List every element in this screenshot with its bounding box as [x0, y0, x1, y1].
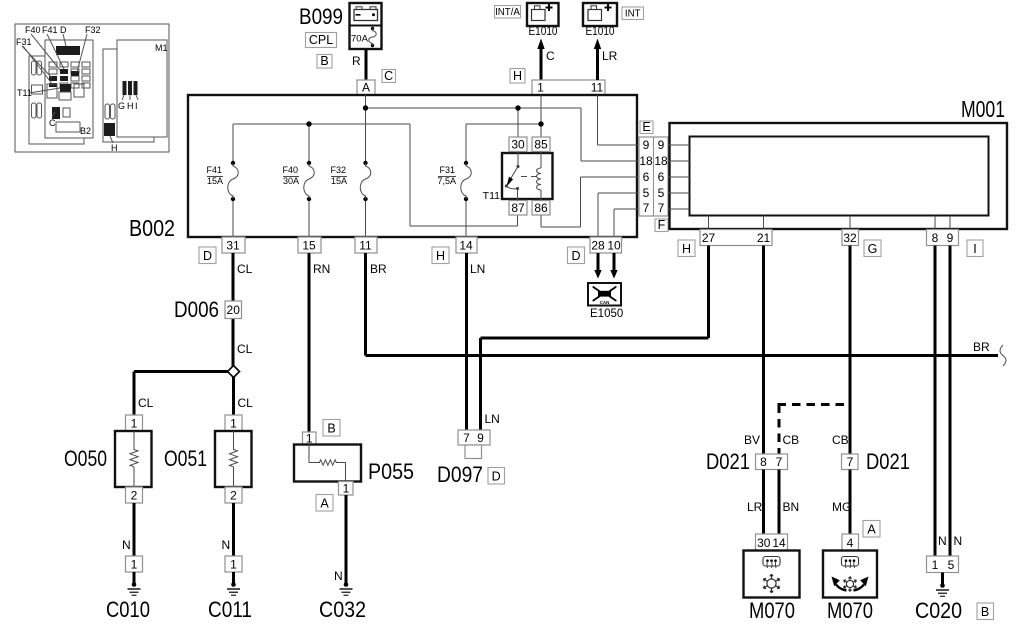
pin 15	[298, 237, 321, 253]
pins 28 10	[590, 237, 622, 253]
wire: relay 86 to pin column row 6	[540, 215, 542, 227]
svg-text:CL: CL	[237, 342, 253, 356]
fuse-box location inset	[15, 24, 169, 153]
junction unit B002	[129, 95, 668, 264]
svg-text:87: 87	[511, 201, 525, 215]
relay pin 30	[509, 137, 527, 152]
svg-text:LR: LR	[747, 500, 763, 514]
svg-text:F31: F31	[16, 37, 32, 47]
relay T11 (dark)	[60, 84, 71, 92]
svg-text:LR: LR	[602, 49, 618, 63]
svg-text:D: D	[60, 25, 67, 35]
svg-text:D021: D021	[706, 449, 750, 474]
svg-text:7: 7	[658, 201, 665, 215]
wire arrow from pin 28	[597, 253, 600, 271]
ground C010	[133, 572, 136, 584]
relay switch contact	[517, 152, 519, 167]
wire CB dashed	[778, 405, 851, 455]
svg-text:B099: B099	[299, 4, 343, 29]
svg-text:C: C	[49, 118, 56, 128]
svg-text:CAN: CAN	[600, 300, 610, 305]
wire LR	[762, 470, 765, 535]
wire BN	[778, 470, 781, 535]
svg-text:7: 7	[463, 431, 470, 445]
label I	[967, 240, 983, 257]
wire arrow from pin 10	[613, 253, 616, 271]
grille icon	[842, 557, 859, 567]
svg-text:C: C	[384, 69, 393, 83]
svg-text:1: 1	[343, 482, 350, 496]
svg-text:R: R	[352, 54, 361, 68]
svg-text:INT/A: INT/A	[495, 7, 520, 18]
label INT/A	[495, 6, 521, 19]
svg-text:CL: CL	[138, 396, 154, 410]
svg-text:F41: F41	[206, 165, 222, 175]
wire BR bus from pin 11	[366, 253, 1007, 366]
wire BV from pin 21	[744, 246, 764, 455]
svg-text:C011: C011	[208, 597, 252, 622]
snowflake icon	[763, 574, 779, 593]
svg-text:2: 2	[230, 489, 237, 503]
connector C020	[915, 556, 994, 623]
wire: INT/A feed pin 1 to F31 and relay 85	[540, 95, 542, 153]
svg-text:28: 28	[591, 239, 605, 253]
svg-text:N: N	[122, 538, 131, 552]
grille icon	[763, 557, 780, 567]
inset frame	[15, 24, 169, 152]
svg-text:7: 7	[776, 455, 783, 469]
svg-text:1: 1	[131, 417, 138, 431]
svg-text:10: 10	[607, 239, 621, 253]
node: junction F40	[306, 121, 311, 126]
svg-text:CB: CB	[783, 433, 800, 447]
svg-text:5: 5	[643, 186, 650, 200]
resistor O050	[64, 415, 152, 622]
label F	[655, 219, 668, 232]
relay pin 85	[532, 137, 550, 152]
svg-text:M1: M1	[155, 43, 168, 53]
svg-text:M070: M070	[827, 598, 873, 623]
svg-text:8: 8	[760, 455, 767, 469]
node: junction A/F32	[363, 105, 368, 110]
svg-text:11: 11	[359, 239, 372, 253]
wire R	[365, 49, 368, 80]
pins 27 21	[700, 230, 772, 246]
connector D021 right	[832, 449, 910, 537]
svg-text:N: N	[954, 534, 963, 548]
svg-text:C020: C020	[915, 598, 962, 623]
svg-text:D: D	[492, 470, 501, 484]
wire N	[232, 503, 235, 556]
label B	[317, 55, 332, 69]
svg-text:1: 1	[932, 558, 939, 572]
label H	[510, 69, 525, 84]
svg-text:M001: M001	[961, 96, 1005, 122]
wire MG	[849, 470, 852, 535]
pin column E	[640, 121, 653, 134]
M1 front panel	[117, 40, 167, 137]
svg-text:9: 9	[643, 138, 650, 152]
svg-text:30: 30	[511, 138, 525, 152]
wire N	[345, 495, 348, 584]
svg-text:9: 9	[658, 138, 665, 152]
svg-text:20: 20	[227, 303, 241, 317]
wire LN from pin 14	[467, 253, 486, 430]
svg-text:9: 9	[947, 231, 954, 245]
wire CL from pin 31	[134, 253, 253, 415]
svg-text:A: A	[867, 523, 876, 537]
svg-text:27: 27	[702, 231, 716, 245]
pin 31	[222, 237, 245, 253]
svg-text:H: H	[436, 249, 445, 263]
svg-text:14: 14	[772, 536, 786, 550]
connector D (dark)	[56, 46, 80, 55]
svg-text:B: B	[327, 422, 335, 436]
fuse 70A symbol	[371, 27, 374, 30]
svg-text:5: 5	[658, 186, 665, 200]
svg-text:11: 11	[591, 81, 604, 95]
node E1050 CAN	[588, 283, 621, 306]
pin 11	[355, 237, 377, 253]
svg-text:RN: RN	[313, 262, 330, 276]
label CPL	[306, 33, 337, 48]
svg-text:CL: CL	[237, 262, 253, 276]
svg-text:MG: MG	[832, 500, 851, 514]
motor M070 recirculation	[823, 534, 877, 623]
svg-text:18: 18	[639, 154, 653, 168]
svg-text:85: 85	[534, 138, 548, 152]
svg-text:H: H	[682, 242, 691, 256]
relay T11	[502, 153, 553, 199]
battery box with 70A fuse	[350, 3, 382, 49]
svg-text:1: 1	[131, 558, 138, 572]
fuse F31 7,5A	[464, 161, 468, 165]
label C	[382, 70, 396, 83]
node E1010	[527, 3, 559, 26]
svg-text:N: N	[334, 569, 343, 583]
label G	[864, 240, 881, 257]
fuse F40 (dark)	[60, 76, 68, 81]
CAN node E1050	[588, 253, 623, 320]
fuse F32 (dark)	[71, 71, 79, 76]
ground C011	[232, 572, 235, 584]
node E1010	[583, 3, 617, 26]
wire: battery bus from pin A	[365, 95, 367, 163]
svg-text:F32: F32	[330, 165, 346, 175]
svg-text:D021: D021	[866, 449, 910, 474]
svg-text:N: N	[222, 538, 231, 552]
fuse F41 15A	[231, 161, 235, 165]
svg-text:E1010: E1010	[529, 26, 558, 38]
svg-text:15: 15	[302, 239, 316, 253]
fuse F31 (dark)	[49, 76, 57, 81]
svg-text:LN: LN	[470, 262, 485, 276]
svg-text:F40: F40	[25, 25, 41, 35]
svg-text:O050: O050	[64, 446, 107, 471]
svg-text:C010: C010	[106, 597, 150, 622]
connector C (dark)	[52, 107, 60, 119]
callout lines	[22, 34, 87, 85]
svg-text:H: H	[127, 101, 134, 111]
ground C032	[344, 582, 349, 587]
svg-text:C: C	[546, 49, 555, 63]
svg-text:1: 1	[230, 417, 237, 431]
svg-text:15A: 15A	[331, 176, 347, 186]
ground C020	[941, 573, 944, 586]
label H	[678, 240, 695, 257]
svg-text:LN: LN	[485, 412, 500, 426]
svg-text:15A: 15A	[207, 176, 223, 186]
svg-text:E1010: E1010	[586, 26, 615, 38]
svg-text:CB: CB	[832, 433, 849, 447]
svg-text:21: 21	[757, 231, 771, 245]
wire: pin 11 INT feed to row 9	[597, 95, 599, 145]
svg-text:2: 2	[131, 489, 138, 503]
svg-text:B002: B002	[129, 215, 175, 241]
label INT	[622, 7, 644, 20]
svg-text:6: 6	[643, 170, 650, 184]
wire C with arrow	[540, 48, 543, 80]
svg-text:I: I	[973, 242, 976, 256]
svg-text:A: A	[320, 497, 329, 511]
battery feed E1010 INT	[583, 3, 644, 95]
svg-text:D: D	[203, 249, 212, 263]
svg-text:86: 86	[534, 201, 548, 215]
wire: pin 28 to row 5	[597, 193, 599, 237]
svg-text:T11: T11	[483, 190, 500, 202]
svg-text:32: 32	[843, 231, 857, 245]
svg-text:D006: D006	[174, 297, 219, 322]
svg-text:14: 14	[459, 239, 473, 253]
connector H (dark square)	[104, 123, 115, 136]
svg-text:8: 8	[932, 231, 939, 245]
wire N	[133, 503, 136, 556]
pin 14	[456, 237, 477, 253]
svg-text:B: B	[981, 605, 989, 619]
svg-text:D: D	[571, 249, 580, 263]
svg-text:BR: BR	[973, 340, 990, 354]
svg-text:D097: D097	[437, 462, 483, 487]
svg-text:F32: F32	[85, 25, 101, 35]
svg-text:1: 1	[537, 81, 544, 95]
relay pin 87	[509, 201, 527, 216]
svg-text:B2: B2	[80, 126, 91, 136]
wire LR with arrow	[596, 48, 599, 80]
wire RN from pin 15	[309, 253, 330, 432]
fuse grid	[49, 62, 90, 88]
svg-text:I: I	[135, 101, 138, 111]
relay coil	[540, 152, 542, 169]
svg-text:G: G	[868, 242, 878, 256]
svg-text:H: H	[111, 143, 118, 153]
svg-text:M070: M070	[749, 598, 795, 623]
svg-text:4: 4	[847, 536, 854, 550]
box B002	[188, 95, 637, 237]
svg-text:BN: BN	[783, 500, 800, 514]
wire stubs rows 9 18 6 5 7	[668, 144, 690, 146]
svg-text:30A: 30A	[283, 176, 299, 186]
battery icon	[354, 10, 378, 21]
fusebox B2 front panel	[45, 40, 93, 138]
connector G (dark bar)	[123, 81, 127, 95]
svg-text:30: 30	[757, 536, 771, 550]
svg-text:O051: O051	[164, 446, 207, 471]
svg-text:INT: INT	[625, 9, 641, 20]
svg-text:F40: F40	[282, 165, 298, 175]
wire: pin 10 to row 7	[613, 209, 615, 237]
pin 32	[842, 230, 859, 246]
svg-text:A: A	[362, 81, 370, 95]
resistor O051	[164, 415, 252, 622]
fuse F41 (dark)	[60, 69, 68, 74]
svg-text:70A: 70A	[351, 34, 369, 45]
svg-text:P055: P055	[368, 459, 414, 484]
svg-text:N: N	[938, 534, 947, 548]
motor M070 compressor	[744, 534, 800, 623]
M1 back plate	[103, 49, 154, 142]
svg-text:CL: CL	[238, 396, 254, 410]
junction diamond	[134, 370, 228, 373]
inner box	[690, 137, 989, 216]
label H	[432, 247, 449, 264]
svg-text:E1050: E1050	[590, 308, 623, 320]
svg-text:H: H	[513, 69, 522, 83]
relay dashed link	[521, 176, 540, 178]
svg-text:7: 7	[847, 455, 854, 469]
wire: fuse outputs to bottom pins	[232, 199, 234, 237]
battery feed E1010 INT/A	[495, 3, 606, 95]
svg-text:B: B	[320, 54, 328, 68]
fuse F32 15A	[363, 161, 367, 165]
svg-text:F31: F31	[439, 165, 455, 175]
svg-text:BV: BV	[744, 433, 760, 447]
svg-text:1: 1	[230, 558, 237, 572]
pin 1 (shared box with pin 11)	[532, 80, 605, 95]
pin A	[357, 80, 375, 95]
svg-text:E: E	[642, 120, 650, 134]
svg-text:31: 31	[226, 239, 240, 253]
svg-text:6: 6	[658, 170, 665, 184]
fusebox B2 back plate	[29, 56, 84, 144]
svg-text:7,5A: 7,5A	[437, 176, 456, 186]
snowflake with arrows icon	[844, 577, 857, 592]
node: junction 85 feed	[538, 121, 543, 126]
node: junction relay 30	[515, 105, 520, 110]
connector H (dark bar)	[128, 81, 132, 95]
battery B099	[299, 3, 396, 95]
relay pin 86	[532, 201, 550, 216]
pins 8 9	[927, 230, 959, 246]
wires N N from pins 8 9	[935, 246, 962, 557]
svg-text:F41: F41	[42, 25, 58, 35]
svg-text:G: G	[118, 101, 125, 111]
svg-text:5: 5	[948, 558, 955, 572]
fuse F40 30A	[307, 161, 311, 165]
svg-text:CPL: CPL	[309, 33, 333, 47]
svg-text:C032: C032	[319, 597, 366, 622]
control unit M001	[668, 96, 1007, 257]
svg-text:18: 18	[654, 154, 668, 168]
box M001	[670, 123, 1008, 229]
label D	[568, 247, 585, 264]
connector I (dark bar)	[134, 81, 138, 95]
wire stubs bottom pins	[708, 216, 710, 230]
svg-text:7: 7	[643, 201, 650, 215]
resistor P055	[294, 420, 414, 623]
svg-text:9: 9	[477, 431, 484, 445]
wire LN to M001 pin 27	[479, 338, 482, 430]
connector D021 left	[706, 449, 799, 534]
connector D097	[437, 246, 709, 488]
wire CB from pin 32	[832, 246, 850, 455]
label D	[199, 247, 216, 264]
svg-text:F: F	[658, 218, 666, 232]
wire: relay 87 output to F41/F40	[517, 215, 519, 226]
svg-text:BR: BR	[370, 262, 387, 276]
